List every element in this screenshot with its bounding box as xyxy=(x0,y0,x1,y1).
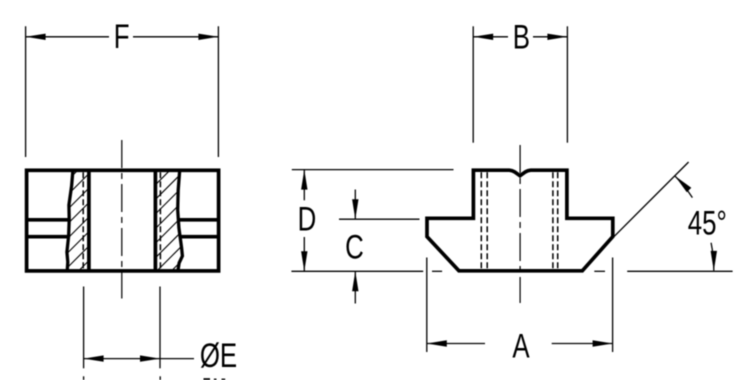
dimension A line left segment xyxy=(427,343,485,345)
left view hatch right band xyxy=(52,168,275,274)
dimension C label xyxy=(345,229,364,266)
left view widest edge line right xyxy=(180,235,219,239)
svg-text:D: D xyxy=(298,201,317,238)
dimension D top reference line xyxy=(292,169,454,171)
angle arc upper segment xyxy=(675,176,693,198)
dimension B line left segment xyxy=(473,36,508,38)
svg-text:C: C xyxy=(345,229,364,266)
dimension A arrow left xyxy=(427,340,447,346)
dimension F line right segment xyxy=(133,36,218,38)
angle arc lower segment xyxy=(711,243,714,271)
left view widest edge line left xyxy=(27,235,70,239)
left view hidden thread line left xyxy=(82,172,84,269)
angle arc arrow lower xyxy=(711,251,717,271)
dimension C arrow top xyxy=(352,199,358,219)
dimension D label xyxy=(298,201,317,238)
dimension F label xyxy=(114,19,130,56)
left view bore edge left xyxy=(87,170,91,271)
chamfer 45 extension line xyxy=(614,162,688,236)
dimension F extension line right xyxy=(217,26,219,157)
dimension OE line xyxy=(84,358,194,360)
dimension D arrow top xyxy=(301,170,307,190)
dimension C step reference line xyxy=(339,218,420,220)
cropped text remnant xyxy=(204,378,211,380)
dimension OE arrow right xyxy=(140,355,160,361)
svg-text:F: F xyxy=(114,19,130,56)
dimension B extension line left xyxy=(472,26,474,142)
dimension A arrow right xyxy=(593,340,613,346)
bottom reference line segments xyxy=(291,270,423,272)
angle 45 label xyxy=(688,205,727,242)
dimension OE extension line right xyxy=(159,287,161,369)
left view hatch left band xyxy=(0,168,196,274)
dimension D line lower segment xyxy=(303,237,305,271)
right view profile outline xyxy=(427,170,613,271)
left view bore edge right xyxy=(154,170,158,271)
dimension A extension line left xyxy=(426,258,428,353)
cropped extension tick right xyxy=(159,376,161,380)
svg-text:45°: 45° xyxy=(688,205,727,242)
dimension C top arrow tail xyxy=(354,190,356,220)
left view centerline xyxy=(121,140,123,299)
left view break line right xyxy=(178,170,183,271)
dimension F line left segment xyxy=(26,36,109,38)
left view outer rectangle xyxy=(27,170,219,271)
dimension A line right segment xyxy=(552,343,613,345)
left view break line left xyxy=(67,170,73,271)
left view step edge line right xyxy=(178,218,219,222)
dimension F arrow left xyxy=(26,34,46,40)
dimension F extension line left xyxy=(25,26,27,157)
svg-text:ØE: ØE xyxy=(200,338,237,375)
dimension B extension line right xyxy=(566,26,568,142)
right view hidden thread lines xyxy=(480,172,482,269)
dimension A extension line right xyxy=(612,258,614,353)
angle arc arrow upper xyxy=(675,176,691,192)
dimension D line upper segment xyxy=(303,170,305,201)
dimension D arrow bottom xyxy=(301,251,307,271)
dimension OE arrow left xyxy=(84,355,104,361)
dimension C bottom arrow tail xyxy=(354,271,356,303)
dimension C arrow bottom xyxy=(352,271,358,291)
dimension OE label xyxy=(200,338,237,375)
dimension OE extension line left xyxy=(83,287,85,369)
left view step edge line left xyxy=(27,218,71,222)
right view centerline xyxy=(519,145,521,303)
svg-text:A: A xyxy=(512,328,530,365)
dimension B label xyxy=(513,19,530,56)
svg-text:B: B xyxy=(513,19,530,56)
cropped extension tick left xyxy=(83,376,85,380)
dimension F arrow right xyxy=(198,34,218,40)
dimension B arrow left xyxy=(473,34,493,40)
dimension B line right segment xyxy=(533,36,567,38)
dimension B arrow right xyxy=(547,34,567,40)
left view hidden thread line right xyxy=(159,172,161,269)
dimension A label xyxy=(512,328,530,365)
